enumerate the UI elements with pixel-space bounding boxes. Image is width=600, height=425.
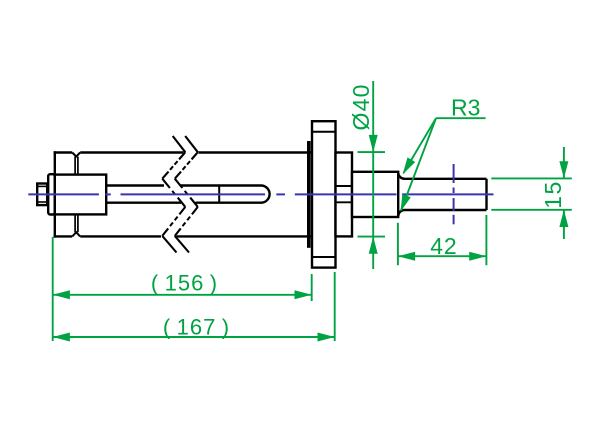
washer bbox=[48, 174, 55, 214]
dimension 156 reference bbox=[53, 237, 312, 341]
break line left zigzag bbox=[162, 136, 185, 253]
rod tick line bbox=[218, 186, 220, 203]
boss with bore lines bbox=[336, 153, 353, 237]
main cylinder left end face bbox=[54, 151, 56, 237]
main cylinder top edge with groove notch and break gap bbox=[54, 153, 312, 157]
dimension 167 reference bbox=[53, 272, 335, 342]
svg-text:15: 15 bbox=[540, 180, 566, 209]
svg-text:R3: R3 bbox=[451, 95, 480, 121]
dimension 42 bbox=[398, 215, 487, 265]
svg-text:Ø40: Ø40 bbox=[348, 83, 374, 130]
groove wall lines bbox=[75, 157, 78, 233]
vertical centerline on shaft bbox=[453, 164, 455, 224]
dimension R3 leader bbox=[401, 95, 486, 212]
svg-text:( 156 ): ( 156 ) bbox=[151, 270, 218, 295]
stud end with thread lines bbox=[37, 184, 47, 206]
main cylinder bottom edge with groove notch and break gap bbox=[54, 232, 312, 236]
horizontal centerline bbox=[28, 193, 493, 195]
dimension dia40 bbox=[348, 81, 385, 269]
flange back strip bbox=[307, 141, 311, 248]
nut block bbox=[55, 175, 106, 215]
break line right zigzag bbox=[175, 136, 198, 253]
svg-text:( 167 ): ( 167 ) bbox=[163, 315, 230, 340]
dimension 15 bbox=[491, 147, 572, 239]
flange plate with rim steps bbox=[312, 121, 336, 267]
svg-text:42: 42 bbox=[430, 233, 457, 259]
inner rod with rounded end bbox=[106, 186, 269, 203]
middle cylinder bbox=[352, 172, 398, 217]
small shaft with fillets and end face bbox=[398, 173, 486, 217]
